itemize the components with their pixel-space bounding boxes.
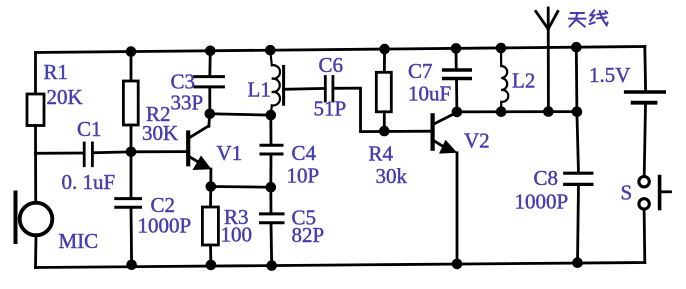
svg-text:C4: C4: [292, 141, 317, 165]
svg-text:L1: L1: [248, 78, 271, 102]
node L2 bottom: [496, 106, 507, 117]
svg-text:C6: C6: [319, 53, 344, 77]
wire C5 top lead: [269, 187, 272, 214]
svg-text:L2: L2: [512, 69, 535, 93]
node C4 C5: [266, 182, 277, 193]
wire C1 right: [92, 152, 131, 153]
inductor L2: [501, 48, 508, 111]
svg-text:33P: 33P: [171, 91, 204, 115]
node collector C3: [205, 109, 216, 120]
wire R4 top lead: [383, 49, 386, 72]
capacitor C8: [565, 172, 592, 175]
svg-text:C7: C7: [408, 59, 433, 83]
wire left edge upper: [34, 53, 37, 96]
node bottom rail C2: [126, 260, 137, 271]
wire R2 bottom lead: [130, 125, 133, 152]
node bottom rail V2 emitter: [452, 259, 463, 270]
resistor R4: [376, 72, 391, 112]
antenna: [547, 8, 550, 112]
node bottom rail R3: [206, 260, 217, 271]
wire C1 left: [36, 152, 85, 155]
wire C6 right: [333, 88, 431, 132]
node mid C8: [572, 106, 583, 117]
svg-text:51P: 51P: [314, 97, 347, 121]
svg-text:S: S: [621, 181, 633, 205]
svg-text:1000P: 1000P: [138, 214, 192, 238]
node emitter R3: [206, 181, 217, 192]
wire C3 bottom lead: [208, 87, 211, 114]
wire R2 top lead: [130, 52, 133, 82]
node antenna: [543, 106, 554, 117]
wire C8 bottom lead: [578, 185, 579, 263]
node bottom rail C5: [266, 260, 277, 271]
svg-text:30k: 30k: [376, 164, 408, 188]
node top rail R2: [126, 46, 137, 57]
svg-text:R1: R1: [44, 60, 69, 84]
svg-text:V1: V1: [217, 141, 243, 165]
capacitor C7: [444, 68, 471, 71]
wire R3 bottom lead: [209, 245, 212, 265]
wire R4 bottom lead: [383, 112, 386, 131]
svg-text:MIC: MIC: [59, 229, 99, 253]
wire C7 bottom lead: [455, 79, 458, 112]
wire bottom rail: [36, 263, 645, 268]
svg-text:V2: V2: [464, 129, 490, 153]
capacitor C2: [116, 197, 141, 200]
node top rail L2: [496, 43, 507, 54]
svg-text:R4: R4: [369, 142, 394, 166]
resistor R2: [123, 81, 138, 125]
wire right edge top: [643, 47, 647, 91]
svg-text:C1: C1: [77, 117, 102, 141]
capacitor C3: [195, 75, 224, 78]
label 天线 antenna: [569, 10, 608, 26]
node bottom rail C8: [572, 257, 583, 268]
svg-text:1000P: 1000P: [515, 190, 569, 214]
wire C7 top lead: [455, 48, 458, 68]
wire below MIC: [34, 235, 37, 268]
wire left edge lower: [34, 126, 37, 204]
node C1 R2 base: [126, 147, 137, 158]
wire C8 branch upper: [576, 47, 578, 173]
capacitor C6: [324, 77, 327, 102]
svg-text:10uF: 10uF: [408, 82, 451, 106]
node top rail L1: [265, 45, 276, 56]
node R4 C6 base: [379, 126, 390, 137]
wire R3 top lead: [209, 187, 212, 208]
transistor V2: [431, 115, 435, 148]
core bar L1: [282, 66, 285, 104]
wire top rail: [36, 47, 645, 53]
wire C2 bottom lead: [130, 207, 133, 264]
svg-text:100: 100: [221, 223, 253, 247]
transistor V1: [186, 133, 190, 165]
wire collector mid rail: [457, 110, 577, 113]
node top rail R4: [379, 44, 390, 55]
node top rail C3: [205, 46, 216, 57]
wire C4 top lead: [269, 115, 272, 145]
svg-text:1.5V: 1.5V: [589, 63, 630, 87]
wire L1 core to C6: [284, 87, 326, 91]
node top rail C7: [451, 43, 462, 54]
node top rail C8: [571, 42, 582, 53]
wire emitter to C4 node: [211, 185, 271, 188]
svg-text:20K: 20K: [47, 85, 83, 109]
inductor L1: [270, 51, 280, 116]
capacitor C4: [261, 144, 282, 147]
node C7 bottom: [452, 107, 463, 118]
wire battery to switch: [644, 105, 645, 177]
svg-text:C8: C8: [534, 166, 559, 190]
wire C2 top lead: [130, 152, 133, 199]
wire C5 bottom lead: [270, 223, 274, 266]
wire C4 bottom lead: [269, 154, 272, 187]
microphone MIC: [20, 203, 53, 236]
svg-text:0. 1uF: 0. 1uF: [62, 170, 116, 194]
capacitor C5: [261, 212, 284, 215]
resistor R1: [27, 94, 44, 126]
node L1 bottom: [266, 110, 277, 121]
svg-text:82P: 82P: [292, 223, 325, 247]
resistor R3: [202, 207, 218, 245]
wire collector node to L1 bottom: [210, 114, 271, 115]
capacitor C1: [83, 143, 86, 166]
switch S: [639, 177, 649, 187]
wire switch to bottom rail: [643, 209, 647, 262]
battery 1.5V: [626, 90, 665, 93]
wire C3 top lead: [208, 51, 211, 77]
svg-text:30K: 30K: [142, 121, 178, 145]
svg-text:10P: 10P: [287, 164, 320, 188]
wire V1 base: [131, 150, 187, 153]
